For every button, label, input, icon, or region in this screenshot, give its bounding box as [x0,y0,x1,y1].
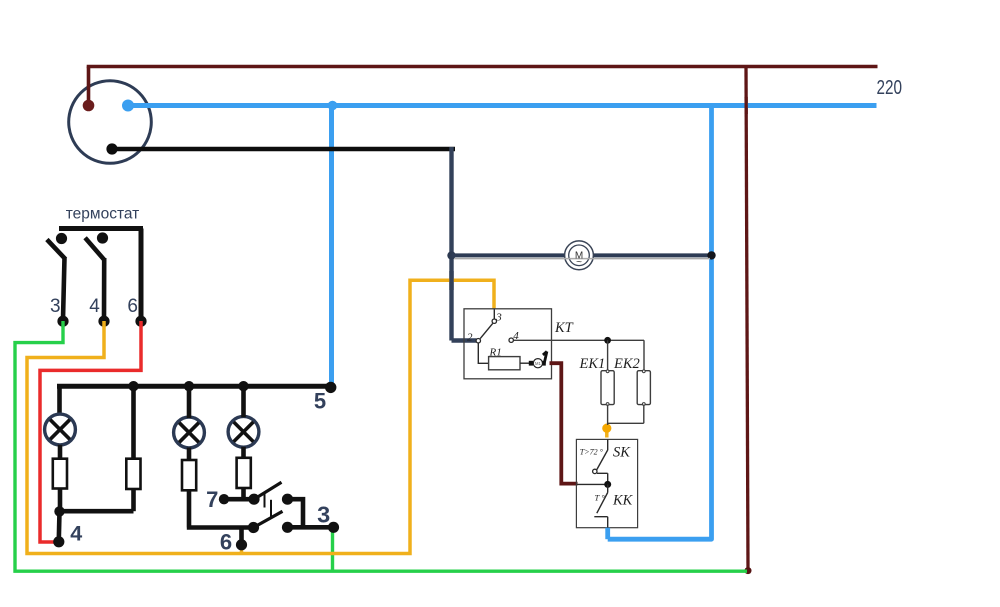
node SK-KK junction dot [604,481,611,488]
label 1 with leader [543,351,547,363]
KK blade [597,493,608,514]
wire KT internal to R1 [478,343,488,363]
svg-text:KK: KK [612,493,634,509]
wire resistor lamp3 down [241,488,246,499]
svg-text:2: 2 [467,332,473,344]
lamp bus horizontal [57,384,331,389]
wire R1 to M1 [520,362,531,364]
motor M outer circle [565,241,594,270]
node maroon-green junction bottom right [745,567,752,574]
wire bottom link to node 3 [288,525,334,530]
wire tap to EK1 [607,340,609,370]
KT terminal 3 lead [493,309,495,318]
wire L maroon vertical from plug pin [87,67,91,107]
wire yellow from contact 4 [27,280,494,553]
wire node4 stub [56,511,61,540]
node bus junction b2 [128,381,138,391]
wire L maroon top horizontal 220 line [87,65,878,69]
lamp HL1 [45,414,76,445]
switch 6 actuator tick [270,500,272,517]
thermostat pivot dot a [56,233,67,244]
svg-text:220: 220 [877,77,903,99]
KT terminal 3 circle [492,319,496,323]
KT blade 2-3 [480,323,493,338]
M1 left cap [529,361,533,366]
wire green from switch node 3 [331,528,334,572]
wire green from contact 3 [15,321,747,571]
wire 7 row horizontal [224,497,254,502]
pin blue dot in plug [122,100,134,112]
wire bus to lamp2 [187,386,192,418]
wire resistor1 down [58,489,63,512]
wire black from plug to timer [112,147,455,152]
wire lamp3 to resistor [241,447,246,458]
node 3 dot [328,522,339,533]
svg-text:6: 6 [127,296,138,317]
wire bottom link lamp1-branch2 [60,509,134,514]
KK top lead [607,484,609,492]
wire navy over yellow crossing [449,271,453,290]
node bus junction b4 [238,381,248,391]
wire yellow stub node 6 [240,545,244,554]
wire motor line navy [452,253,713,257]
motor M inner circle [569,245,590,266]
KK lower tick [594,517,607,528]
switch 6 pivot dot [248,522,259,533]
svg-text:SK: SK [613,445,631,461]
M1 motor circle [533,359,542,368]
plug socket X1 [69,81,152,164]
node right upper contact dot [282,494,293,505]
wire lamp2 branch down to switch row [187,490,254,527]
thermostat switch blade 2 [85,238,104,319]
switch 7 actuator tick [264,492,266,508]
node 6 dot [236,539,247,550]
svg-text:3: 3 [50,296,61,317]
svg-text:4: 4 [70,522,82,546]
wire lamp2 to resistor [187,448,192,461]
wire L maroon branch vertical right [746,67,748,569]
svg-text:M1: M1 [535,361,541,366]
resistor R-lamp2 [182,460,196,490]
SK contact circle [593,469,597,473]
SK lower link [597,473,608,484]
thermostat switch blade 1 [47,240,66,320]
svg-text:3: 3 [317,501,330,527]
wire navy to KT terminal 2 [452,338,477,342]
svg-text:5: 5 [314,388,326,413]
wire lamp1 to resistor1 [58,445,63,459]
wire EK2 bottom to junction [608,405,644,424]
wire yellow segment below EK1 [605,424,609,438]
node bus junction b3 [184,381,194,391]
node lamp1 bottom junction [54,506,64,516]
SK switch top lead [607,439,609,450]
svg-text:EK1: EK1 [579,356,606,372]
svg-text:T>72 °: T>72 ° [580,448,604,457]
resistor R-branch2 [126,459,140,489]
node EK1 tap dot [604,337,611,344]
wire maroon from M1 down to SK [550,363,578,483]
KT timer box [464,309,552,379]
node motor line left junction [447,251,455,259]
svg-text:EK2: EK2 [613,356,640,372]
KT terminal 4 circle [509,338,513,342]
node 7 dot [219,494,229,504]
svg-text:7: 7 [206,487,218,512]
svg-text:термостат: термостат [66,206,140,223]
thermostat contact 4 dot [98,316,109,327]
wire blue drop to node 5 [329,106,334,384]
svg-text:4: 4 [89,296,100,317]
wire thin maroon entry inside box [577,483,608,485]
wire maroon over blue crossing [744,97,747,114]
wire red from contact 6 [40,321,141,542]
thermostat pivot dot b [97,232,108,243]
KT terminal 2 circle [476,339,480,343]
node yellow dot below EK1 [602,424,611,433]
lamp bus left corner drop [57,386,62,415]
thermostat top bar [59,226,143,231]
thermostat right vertical to contact 6 [139,229,144,319]
SK KK thermal box [576,439,637,527]
svg-text:KT: KT [554,320,574,336]
thermostat contact 6 dot [135,316,146,327]
SK blade [597,450,608,470]
lamp HL2 [174,417,205,448]
heater EK1 [601,371,614,405]
lamp HL3 [228,416,259,447]
wire right contact L link [288,499,304,527]
switch 7 blade [254,482,282,499]
node 5 bus right end dot [325,382,336,393]
switch 6 blade [254,511,283,527]
wire navy vertical drop to KT [449,147,453,341]
wire blue drop right to motor and KK [608,106,712,540]
svg-text:3: 3 [495,312,502,324]
node motor line right junction [707,251,715,259]
shadow under motor line [454,258,710,260]
wire resistor2 down [131,489,136,511]
branch2 vertical with resistor [131,386,136,459]
pin maroon dot in plug [83,100,95,112]
node 4 dot [53,536,64,547]
thermostat contact 3 dot [57,316,68,327]
heater EK2 [637,371,650,405]
node switch7 pivot dot [248,494,259,505]
wire N blue horizontal bus [128,103,877,108]
svg-text:~: ~ [576,257,582,268]
wire node 6 stub [239,527,244,543]
resistor R-lamp3 [237,458,251,488]
wire blue KK bottom stub [605,528,610,540]
wire EK1 bottom [607,405,609,425]
svg-text:6: 6 [220,529,232,554]
wire bus to lamp3 [241,386,246,417]
resistor R-lamp1 [53,459,67,489]
pin black dot in plug [106,143,117,154]
M1 right cap [543,361,546,366]
wire thin from terminal 4 to EK2 [514,340,644,370]
node blue junction on bus [328,101,338,111]
node right lower contact dot [282,522,293,533]
svg-text:R1: R1 [489,347,502,359]
resistor R1 [489,357,520,370]
